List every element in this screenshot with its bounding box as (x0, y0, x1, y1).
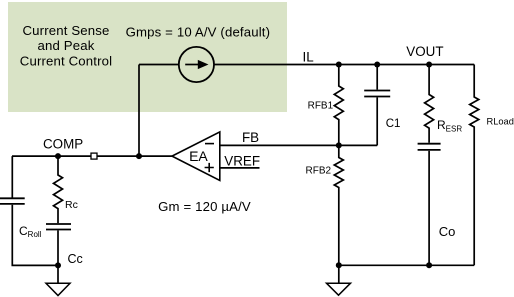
svg-text:COMP: COMP (43, 137, 83, 152)
svg-text:IL: IL (303, 49, 314, 64)
svg-text:and Peak: and Peak (38, 38, 95, 53)
svg-text:Gmps = 10 A/V (default): Gmps = 10 A/V (default) (126, 25, 271, 40)
svg-text:Current Control: Current Control (20, 53, 112, 68)
svg-text:RLoad: RLoad (487, 117, 514, 127)
svg-text:VOUT: VOUT (406, 44, 443, 59)
svg-text:Rc: Rc (65, 199, 78, 211)
svg-text:EA: EA (189, 148, 208, 164)
svg-text:VREF: VREF (224, 154, 260, 169)
svg-text:C1: C1 (386, 118, 401, 130)
svg-text:Gm = 120 µA/V: Gm = 120 µA/V (158, 199, 251, 214)
svg-text:FB: FB (242, 130, 259, 145)
svg-text:RFB1: RFB1 (308, 100, 334, 111)
svg-text:Cc: Cc (68, 252, 83, 266)
svg-text:RFB2: RFB2 (306, 165, 332, 176)
svg-text:Co: Co (439, 224, 456, 239)
svg-text:Current Sense: Current Sense (23, 23, 110, 38)
